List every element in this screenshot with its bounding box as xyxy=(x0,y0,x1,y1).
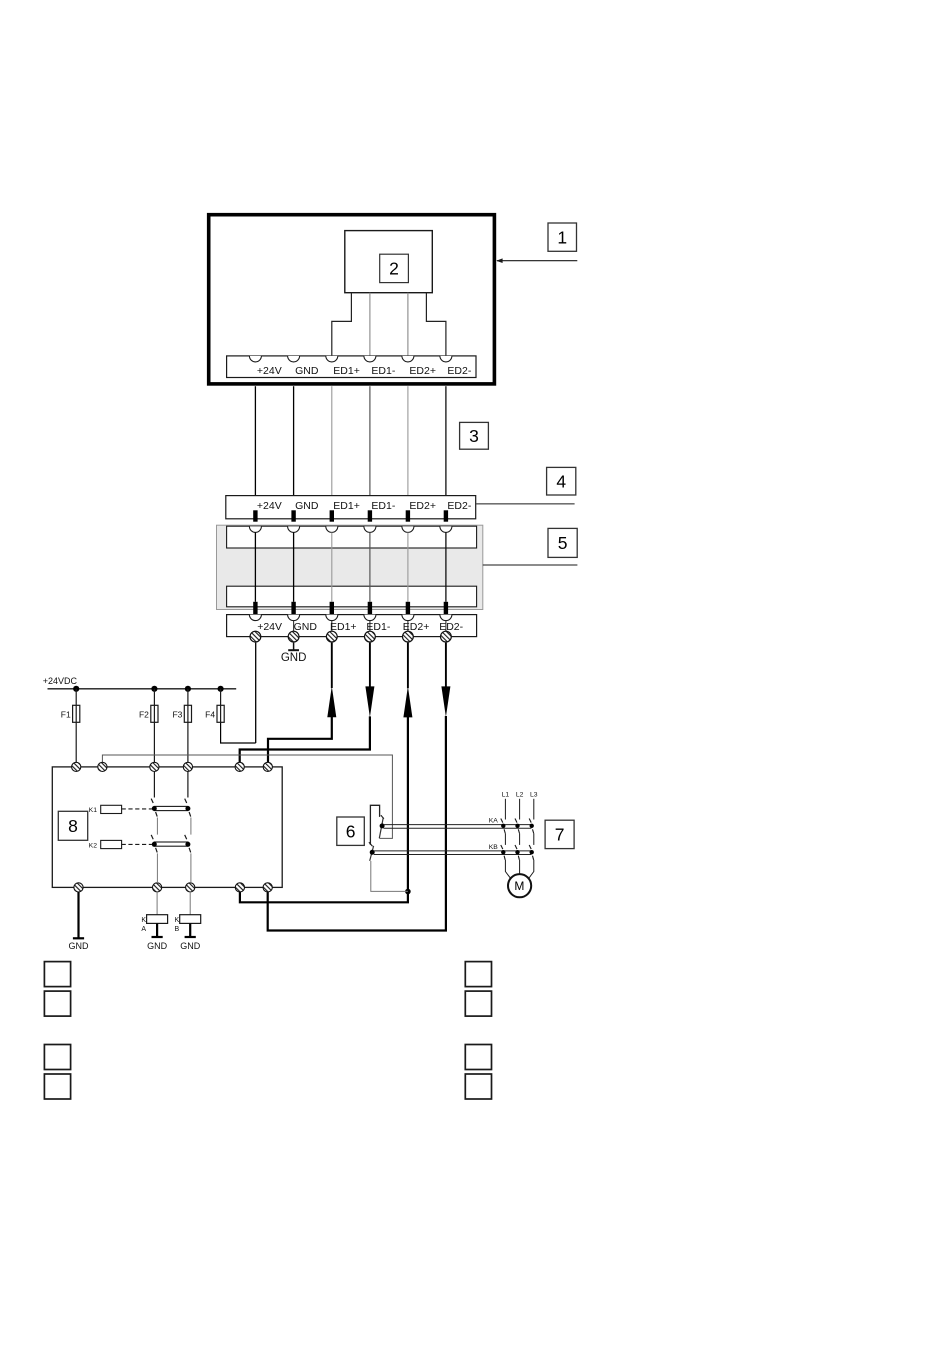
field strip notch xyxy=(402,615,414,621)
field strip notch xyxy=(326,615,338,621)
rail junction dot xyxy=(73,686,79,692)
wire relay box to switch xyxy=(102,755,392,838)
field strip screw terminal xyxy=(326,631,337,642)
coil GND xyxy=(156,923,158,936)
legend box xyxy=(44,962,70,987)
svg-text:3: 3 xyxy=(469,426,479,446)
svg-text:L2: L2 xyxy=(516,792,524,799)
svg-text:4: 4 xyxy=(556,471,566,491)
svg-text:ED1+: ED1+ xyxy=(333,365,360,377)
svg-text:F1: F1 xyxy=(61,709,71,719)
field strip stub wire xyxy=(293,621,295,631)
svg-text:GND: GND xyxy=(180,941,201,951)
relay box component 8 xyxy=(52,767,282,888)
connector 4 pin xyxy=(291,510,295,521)
wire L3 to motor xyxy=(527,860,534,881)
KA line pair xyxy=(383,824,531,826)
label box 8 xyxy=(58,811,87,840)
label box 3 xyxy=(460,422,489,449)
cable wire ED2- xyxy=(445,532,447,601)
svg-text:GND: GND xyxy=(294,621,318,633)
svg-text:F2: F2 xyxy=(139,709,149,719)
relay box top terminal xyxy=(72,762,81,771)
svg-text:A: A xyxy=(141,926,146,933)
wire module to ED1+ xyxy=(332,293,352,357)
relay box bottom terminal xyxy=(235,883,244,892)
fuse F4 xyxy=(220,689,222,706)
GND lead left xyxy=(77,892,79,938)
svg-text:ED1-: ED1- xyxy=(371,500,395,512)
svg-text:L1: L1 xyxy=(502,792,510,799)
svg-text:ED2-: ED2- xyxy=(439,621,463,633)
terminal notch xyxy=(440,356,452,362)
label box 7 xyxy=(545,820,574,848)
switch hook wire xyxy=(370,805,379,845)
field strip screw terminal xyxy=(403,631,414,642)
cable wire +24V xyxy=(254,532,256,601)
K1 dashed link xyxy=(122,808,152,810)
switch blade 1 xyxy=(379,817,383,838)
KB line pair xyxy=(374,850,531,852)
cable block pin xyxy=(291,602,295,614)
contact column wire top xyxy=(187,772,189,798)
contact K2 blade ticks xyxy=(151,835,153,839)
wire F1 down xyxy=(75,722,77,762)
svg-text:ED2+: ED2+ xyxy=(409,500,436,512)
svg-text:L3: L3 xyxy=(530,792,538,799)
svg-text:1: 1 xyxy=(557,227,567,247)
legend box xyxy=(44,1045,70,1070)
wire ED2+ box to connector xyxy=(407,386,409,496)
relay box bottom terminal xyxy=(153,883,162,892)
connector 4 pin xyxy=(253,510,257,521)
switch output wire xyxy=(371,861,408,891)
field strip stub wire xyxy=(331,621,333,631)
wire ED1- box to connector xyxy=(369,386,371,496)
svg-text:ED2-: ED2- xyxy=(447,365,471,377)
wire ED1+ with up arrow xyxy=(331,643,333,688)
field strip screw terminal xyxy=(441,631,452,642)
legend box xyxy=(44,1074,70,1099)
cable wire GND xyxy=(293,532,295,601)
label box 2 xyxy=(380,254,409,282)
wire L2 to motor xyxy=(519,860,521,874)
svg-text:KA: KA xyxy=(489,818,499,825)
wire ED2+ with up arrow xyxy=(407,643,409,689)
relay box top terminal xyxy=(263,762,272,771)
wire F2 down xyxy=(153,722,155,762)
K2 dashed link xyxy=(122,843,152,845)
contact K1 blade ticks xyxy=(151,799,153,803)
legend box xyxy=(465,962,491,987)
K2 linkage bar xyxy=(154,842,188,846)
strip GND symbol xyxy=(293,643,295,650)
relay box top terminal xyxy=(235,762,244,771)
upper row notch xyxy=(440,526,452,532)
leader line to label 5 xyxy=(483,564,578,566)
fuse F3 xyxy=(187,689,189,706)
leader line to label 1 xyxy=(497,260,577,262)
wire +24V box to connector xyxy=(254,386,256,496)
svg-text:GND: GND xyxy=(281,652,307,664)
svg-text:GND: GND xyxy=(69,941,90,951)
upper row notch xyxy=(402,526,414,532)
relay box bottom terminal xyxy=(74,883,83,892)
connector 4 pin xyxy=(368,510,372,521)
wire between contacts xyxy=(190,818,192,835)
KB contact L2 xyxy=(515,845,517,849)
wire ED1- with down arrow xyxy=(369,643,371,688)
cable wire ED1- xyxy=(369,532,371,601)
cable block pin xyxy=(330,602,334,614)
svg-text:2: 2 xyxy=(389,259,399,279)
cable block component 5 xyxy=(217,525,483,609)
KA contact L1 xyxy=(501,819,503,823)
upper row notch xyxy=(326,526,338,532)
svg-text:5: 5 xyxy=(558,533,568,553)
legend box xyxy=(465,1045,491,1070)
coil GND xyxy=(189,923,191,936)
svg-text:M: M xyxy=(514,879,524,893)
svg-text:+24V: +24V xyxy=(257,500,282,512)
switch blade 2 xyxy=(370,846,374,861)
connector 4 pin xyxy=(330,510,334,521)
cable block pin xyxy=(253,602,257,614)
svg-text:F4: F4 xyxy=(205,709,215,719)
label box 1 xyxy=(548,223,577,251)
upper row notch xyxy=(249,526,261,532)
wire module to ED2- xyxy=(426,293,446,357)
cable wire ED1+ xyxy=(331,532,333,601)
svg-text:ED1-: ED1- xyxy=(371,365,395,377)
leader line to label 4 xyxy=(476,503,574,505)
wire +24V down xyxy=(255,643,257,743)
inner module box xyxy=(345,231,433,293)
svg-text:ED2-: ED2- xyxy=(447,500,471,512)
device terminal strip xyxy=(227,356,476,378)
KA contact L2 xyxy=(515,819,517,823)
device enclosure box (component 1) xyxy=(209,215,495,384)
svg-text:GND: GND xyxy=(147,941,168,951)
contact K1 blade ticks xyxy=(185,799,187,803)
wire F4 link xyxy=(221,722,256,743)
rail junction dot xyxy=(185,686,191,692)
wire contact to bottom terminal xyxy=(156,853,158,883)
svg-text:6: 6 xyxy=(346,821,356,841)
switch contact 1 tick xyxy=(381,815,384,819)
svg-text:+24VDC: +24VDC xyxy=(43,676,78,686)
fuse F1 xyxy=(75,689,77,706)
label box 4 xyxy=(547,467,576,495)
svg-text:ED1+: ED1+ xyxy=(333,500,360,512)
cable block pin xyxy=(368,602,372,614)
wire ED2- with down arrow xyxy=(445,643,447,687)
svg-text:KB: KB xyxy=(489,844,499,851)
relay box bottom terminal xyxy=(186,883,195,892)
svg-text:F3: F3 xyxy=(172,709,182,719)
terminal notch xyxy=(326,356,338,362)
switch contact 2 tick xyxy=(369,842,373,846)
legend box xyxy=(465,1074,491,1099)
field strip stub wire xyxy=(445,621,447,631)
terminal notch xyxy=(402,356,414,362)
relay coil K A xyxy=(156,892,158,915)
svg-text:K2: K2 xyxy=(89,842,98,849)
wire ED1+ box to connector xyxy=(331,386,333,496)
field strip notch xyxy=(364,615,376,621)
svg-text:GND: GND xyxy=(295,500,319,512)
contact K2 blade ticks xyxy=(185,835,187,839)
svg-text:GND: GND xyxy=(295,365,319,377)
field strip stub wire xyxy=(369,621,371,631)
field strip screw terminal xyxy=(250,631,261,642)
wire ED2- box to connector xyxy=(445,386,447,496)
+24VDC rail xyxy=(48,688,237,690)
svg-text:K1: K1 xyxy=(89,807,98,814)
terminal notch xyxy=(288,356,300,362)
svg-text:7: 7 xyxy=(555,825,565,845)
junction dot ED2+ / switch output xyxy=(405,889,411,895)
svg-text:B: B xyxy=(175,926,180,933)
terminal notch xyxy=(249,356,261,362)
K1 linkage bar xyxy=(154,806,188,810)
upper row notch xyxy=(288,526,300,532)
legend box xyxy=(44,991,70,1016)
svg-text:+24V: +24V xyxy=(257,621,282,633)
upper row notch xyxy=(364,526,376,532)
relay box bottom terminal xyxy=(263,883,272,892)
svg-text:8: 8 xyxy=(68,816,78,836)
rail junction dot xyxy=(151,686,157,692)
contact column wire top xyxy=(153,772,155,798)
cable wire ED2+ xyxy=(407,532,409,601)
legend box xyxy=(465,991,491,1016)
svg-text:ED2+: ED2+ xyxy=(409,365,436,377)
KA contact L3 xyxy=(529,819,531,823)
KB contact L3 xyxy=(529,845,531,849)
cable block pin xyxy=(444,602,448,614)
terminal notch xyxy=(364,356,376,362)
KB contact L1 xyxy=(501,845,503,849)
wire module to ED1- xyxy=(369,293,371,357)
field strip notch xyxy=(288,615,300,621)
connector 4 pin xyxy=(406,510,410,521)
wire L1 to motor xyxy=(505,860,512,882)
cable block lower row xyxy=(227,586,477,607)
svg-text:K: K xyxy=(141,917,146,924)
connector strip component 4 xyxy=(226,496,476,519)
field strip screw terminal xyxy=(365,631,376,642)
wire contact to bottom terminal xyxy=(190,853,192,883)
cable block upper row xyxy=(227,526,477,548)
wire module to ED2+ xyxy=(407,293,409,357)
field strip notch xyxy=(249,615,261,621)
wire F3 down xyxy=(187,722,189,762)
relay box top terminal xyxy=(98,762,107,771)
connector 4 pin xyxy=(444,510,448,521)
relay box top terminal xyxy=(150,762,159,771)
label box 6 xyxy=(337,817,365,845)
motor M xyxy=(508,874,531,897)
wire GND box to connector xyxy=(293,386,295,496)
label box 5 xyxy=(548,528,577,557)
fuse F2 xyxy=(153,689,155,706)
field strip stub wire xyxy=(407,621,409,631)
field strip screw terminal xyxy=(288,631,299,642)
field terminal strip xyxy=(227,615,477,637)
field strip notch xyxy=(440,615,452,621)
relay box top terminal xyxy=(183,762,192,771)
svg-text:K: K xyxy=(175,917,180,924)
rail junction dot xyxy=(218,686,224,692)
svg-text:+24V: +24V xyxy=(257,365,282,377)
cable block pin xyxy=(406,602,410,614)
relay coil K B xyxy=(189,892,191,915)
wire between contacts xyxy=(156,818,158,835)
